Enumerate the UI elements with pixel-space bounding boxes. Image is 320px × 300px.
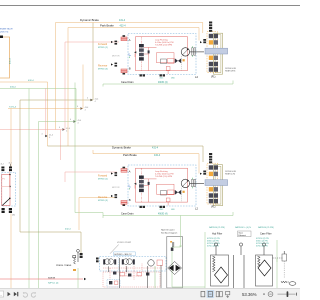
svg-text:431-4: 431-4: [9, 58, 11, 64]
motor case drain dashed A: [181, 56, 183, 70]
valve block outer tan box B: [214, 165, 223, 206]
toolbar zoom slider: [278, 293, 296, 295]
svg-text:(P1): (P1): [211, 77, 216, 79]
svg-text:432-4: 432-4: [65, 228, 71, 230]
svg-text:(2WD P4): (2WD P4): [0, 32, 9, 34]
svg-text:B: B: [129, 198, 131, 202]
reverse fitting B: [115, 194, 118, 196]
svg-text:A: A: [129, 38, 131, 42]
port bar A B: [121, 169, 127, 171]
traction lever red box: [2, 175, 10, 206]
vertical wire green x38: [38, 122, 40, 289]
vertical wire orange x68 park brake A: [67, 28, 69, 147]
svg-text:REAR (LH): REAR (LH): [225, 173, 235, 176]
svg-text:MTR/D (2): MTR/D (2): [98, 179, 108, 181]
cluster salmon feed: [9, 167, 11, 186]
filters right green drop: [276, 240, 278, 288]
wire olive horizontal: [20, 99, 93, 101]
svg-text:(M): (M): [12, 215, 15, 217]
case drain wire B: [103, 212, 233, 218]
hyd filter spring column: [213, 256, 216, 272]
case filter spring column: [258, 256, 261, 266]
filters left green drop: [204, 232, 206, 288]
right small valve: [282, 254, 287, 261]
bowtie valve A: [175, 58, 181, 63]
press trans spring component 2: [77, 252, 79, 262]
shuttle spool valve A: [141, 37, 143, 71]
mid element label box: [238, 231, 252, 237]
svg-text:6/7/0.5 (2) P/N: 6/7/0.5 (2) P/N: [207, 246, 219, 248]
toolbar last page icon: [14, 292, 17, 296]
olive elbow to hydro pump: [20, 232, 81, 253]
svg-text:Hyd Oil Cooler: Hyd Oil Cooler: [161, 229, 175, 232]
salmon line in cluster: [2, 186, 10, 188]
forward B wire salmon: [65, 172, 117, 182]
filters connecting verticals: [233, 255, 235, 288]
svg-text:Case Filter: Case Filter: [260, 233, 272, 236]
svg-text:MTR/D (2): MTR/D (2): [98, 47, 108, 49]
motor case drain dashed B: [181, 188, 183, 202]
svg-text:4: 4: [87, 98, 88, 100]
lever arm: [2, 199, 10, 206]
park brake wire A: [68, 28, 199, 41]
vertical wire orange x55 from dynamic brake A: [55, 23, 57, 130]
toolbar rotate cw icon: [31, 293, 35, 297]
svg-text:Case Drain: Case Drain: [121, 213, 134, 216]
svg-text:BRAKE VALVE: BRAKE VALVE: [0, 28, 13, 31]
svg-text:T471-4: T471-4: [9, 107, 17, 109]
svg-text:4.4 Bar (500 Da) PSI: 4.4 Bar (500 Da) PSI: [155, 42, 174, 44]
motor assembly A outer blue dashed box: [128, 34, 196, 75]
pump valve rect 4: [157, 260, 163, 266]
svg-text:53.36%: 53.36%: [242, 292, 257, 297]
port fitting A A: [123, 35, 126, 37]
hyd filter diamond: [215, 267, 228, 283]
wire olive down from dynamic brake: [92, 23, 94, 101]
dynamic brake wire A: [56, 23, 203, 34]
svg-text:Reverse: Reverse: [98, 196, 108, 199]
valve block outer tan box A: [214, 33, 223, 74]
orifice B: [183, 191, 185, 193]
svg-text:432-4: 432-4: [120, 24, 127, 27]
right spring horizontal: [281, 281, 287, 283]
port fitting A B: [123, 167, 126, 169]
svg-text:41-4: 41-4: [95, 98, 99, 100]
svg-text:Dynamic Brake: Dynamic Brake: [112, 146, 131, 150]
pump lower comps: [113, 272, 116, 275]
toolbar dropdown dot: [263, 293, 264, 294]
wire T471-4 orange from reverse port: [82, 65, 84, 109]
page top border: [0, 5, 300, 7]
gauge port marks B: [129, 185, 131, 188]
svg-text:41-4: 41-4: [78, 120, 82, 122]
connector arrow E2: [81, 107, 83, 109]
svg-text:NAT/S10.5 - (4) N: NAT/S10.5 - (4) N: [235, 226, 251, 229]
spool pilot red lines B: [144, 178, 157, 180]
cooler top thermal valve: [172, 242, 174, 247]
svg-text:See Aux Diagram: See Aux Diagram: [161, 231, 177, 234]
connector arrow E5: [45, 135, 47, 137]
svg-text:432-4: 432-4: [154, 154, 161, 157]
vertical wire olive x20: [19, 100, 21, 232]
port bars right A: [192, 48, 194, 55]
valve block orange dashed boundary A: [207, 32, 218, 73]
pump internal verticals: [108, 266, 110, 272]
valve block spool bar B: [205, 180, 228, 186]
svg-text:NZPG-1 (4): NZPG-1 (4): [48, 282, 59, 284]
bowtie valve B: [175, 190, 181, 195]
solenoid above block B: [209, 159, 212, 161]
orifice A: [183, 59, 185, 61]
svg-text:B: B: [129, 67, 131, 71]
svg-text:Park Brake: Park Brake: [100, 23, 114, 27]
motor assembly B red boundary box: [136, 168, 188, 202]
port bar B B: [121, 201, 127, 203]
svg-text:Forward: Forward: [98, 175, 108, 178]
pump sub box blue: [107, 280, 120, 288]
case filter diamond: [258, 260, 271, 276]
motor symbol circle A: [181, 48, 189, 56]
solenoid above block upper A: [209, 22, 212, 24]
toolbar next page icon: [8, 292, 11, 296]
cooler green tick: [179, 245, 182, 247]
wire T471-4 horizontal: [8, 108, 83, 110]
case filter body: [256, 255, 273, 286]
orange tick: [73, 269, 76, 271]
red divider line A: [148, 47, 150, 70]
small red valve box A: [166, 67, 170, 71]
svg-text:4: 4: [59, 127, 60, 129]
valve block cells A: [209, 34, 213, 38]
svg-text:Reverse: Reverse: [98, 65, 108, 68]
svg-text:431-4: 431-4: [119, 19, 126, 22]
svg-text:41-4: 41-4: [1, 164, 4, 166]
supply arrow: [84, 278, 86, 280]
svg-text:431-4: 431-4: [152, 147, 159, 150]
vertical wire salmon x60: [60, 130, 62, 161]
svg-text:MTR/D (3): MTR/D (3): [98, 200, 108, 202]
toolbar page number box: [0, 291, 4, 297]
junction comp below olive elbow: [80, 253, 83, 255]
cluster top fitting 2: [9, 167, 12, 169]
svg-text:4: 4: [49, 137, 50, 139]
hydro pump callout: [110, 245, 119, 254]
svg-text:SURGE: SURGE: [48, 278, 56, 280]
connector arrow E3: [74, 120, 76, 122]
cluster fitting 1: [2, 208, 5, 210]
motor assembly B outer blue dashed box: [128, 165, 196, 206]
svg-text:4: 4: [77, 106, 78, 108]
brake valve body (cut off at left edge): [0, 37, 10, 78]
svg-text:4: 4: [78, 123, 79, 125]
svg-text:REAR (RH): REAR (RH): [225, 70, 236, 73]
svg-text:L2: L2: [195, 75, 198, 79]
right oval: [289, 282, 296, 286]
pump unit divider: [118, 257, 120, 271]
relief valve component B: [161, 191, 167, 196]
motor shaft line B: [190, 182, 204, 184]
connector arrow E1: [91, 99, 93, 101]
drain fittings below box B: [140, 206, 142, 208]
svg-text:Hyd Filter: Hyd Filter: [212, 233, 222, 236]
forward fitting B: [115, 172, 118, 174]
svg-text:433-4: 433-4: [10, 87, 16, 89]
charge relief red box A: [157, 53, 175, 63]
svg-text:P1: P1: [2, 179, 4, 181]
shuttle spool valve B: [141, 168, 143, 202]
svg-text:4: 4: [42, 134, 43, 136]
svg-text:41-4: 41-4: [85, 107, 89, 109]
cooler inlet green: [172, 216, 205, 288]
svg-text:Dynamic Brake: Dynamic Brake: [80, 18, 99, 22]
port bars right B: [192, 179, 194, 186]
wire salmon horizontal: [0, 129, 65, 131]
relief valve component A: [161, 59, 167, 64]
left check valve A: [134, 51, 136, 53]
salmon supply line to pump: [0, 278, 83, 280]
svg-text:A: A: [129, 170, 131, 174]
wire 433-4 green: [0, 89, 76, 122]
right valve dashed drop: [283, 261, 285, 278]
pump inlet fitting: [96, 258, 99, 260]
junction fitting left of block B: [203, 171, 206, 173]
spool pilot red lines A: [144, 46, 157, 48]
svg-text:4: 4: [66, 131, 67, 133]
solenoid above block upper B: [209, 153, 212, 155]
svg-text:L2: L2: [195, 207, 198, 211]
svg-text:4: 4: [95, 101, 96, 103]
toolbar two page icon: [216, 291, 219, 296]
svg-text:HYDRO PUMP: HYDRO PUMP: [117, 242, 132, 244]
junction fitting left of block A: [203, 39, 206, 41]
svg-text:(P1): (P1): [211, 206, 216, 208]
valve block orange dashed boundary B: [207, 163, 218, 204]
vertical wire salmon x46: [45, 88, 47, 135]
toolbar scrolling icon: [226, 291, 230, 294]
svg-text:MOTOR: MOTOR: [112, 187, 120, 189]
oil cooler outline: [167, 237, 183, 289]
port bar B A: [121, 69, 127, 71]
svg-text:4.4 Bar (500 Da) PSI: 4.4 Bar (500 Da) PSI: [155, 174, 174, 176]
toolbar rotate ccw icon: [23, 293, 27, 297]
svg-text:4: 4: [70, 119, 71, 121]
svg-text:MOTOR: MOTOR: [112, 55, 120, 57]
breather 3: [262, 243, 265, 246]
lever pivot dots: [9, 174, 10, 175]
toolbar single page icon: [201, 291, 205, 296]
vertical wire green x29: [28, 89, 30, 289]
wire 432-4 orange: [0, 82, 48, 146]
svg-text:490/D (4): 490/D (4): [158, 214, 168, 216]
cluster top fitting 1: [1, 167, 4, 169]
valve block cells B: [209, 165, 213, 169]
case drain wire A: [103, 81, 233, 87]
svg-text:Park Brake: Park Brake: [123, 153, 137, 157]
hyd filter body: [211, 255, 229, 286]
port fitting B A: [123, 73, 126, 75]
svg-text:Element: Element: [239, 234, 247, 237]
svg-text:Loop Flushing: Loop Flushing: [155, 171, 168, 173]
svg-text:7.6L/NK (2.0) GPM: 7.6L/NK (2.0) GPM: [155, 45, 172, 47]
pump unit 3 circle: [148, 260, 154, 266]
traction lever blue dashed box: [2, 172, 16, 206]
right dashed takeoff: [273, 257, 284, 259]
dynamic brake wire B: [48, 146, 204, 162]
red divider line B: [148, 179, 150, 202]
svg-text:490/D (4): 490/D (4): [158, 82, 168, 84]
cluster fitting 2: [9, 208, 12, 210]
svg-text:432-4: 432-4: [28, 80, 34, 82]
toolbar background: [0, 289, 300, 300]
reverse fitting A: [115, 63, 118, 65]
small red valve box B: [166, 198, 170, 202]
valve block spool bar A: [205, 48, 228, 54]
toolbar fit width icon selected: [207, 290, 215, 298]
toolbar zoom out icon: [268, 292, 273, 297]
port bar A A: [121, 37, 127, 39]
breather 2: [239, 243, 242, 246]
forward fitting A: [115, 41, 118, 43]
svg-text:7.6L/NK (2.0) GPM: 7.6L/NK (2.0) GPM: [155, 176, 172, 178]
gauge port marks A: [129, 53, 131, 56]
wire green to lower bus: [39, 121, 77, 123]
svg-text:41-4: 41-4: [9, 163, 12, 165]
svg-text:4: 4: [85, 110, 86, 112]
pump unit 2: [122, 259, 124, 264]
svg-text:Forward: Forward: [98, 43, 108, 46]
vertical wire green x75: [75, 83, 103, 216]
green drop from pump area: [77, 268, 79, 288]
svg-text:NAT/S10 (25 PSI): NAT/S10 (25 PSI): [209, 226, 225, 229]
pump red dashed internals: [103, 267, 162, 269]
drain fittings below box A: [140, 74, 142, 76]
port fitting B B: [123, 204, 126, 206]
cooler bypass diamond: [168, 262, 182, 275]
connector arrow E4: [63, 128, 65, 130]
vertical wire orange x11 lower: [10, 214, 12, 289]
press trans spring component 1: [74, 258, 76, 264]
svg-text:NAT/S10 (25 PSI): NAT/S10 (25 PSI): [258, 226, 274, 229]
charge relief red box B: [157, 184, 175, 194]
hydro pump blue dashed box: [100, 257, 167, 272]
solenoid above block A: [209, 27, 212, 29]
svg-text:6/7/0.5 (2) P/N: 6/7/0.5 (2) P/N: [256, 246, 268, 248]
breather 1: [214, 243, 217, 246]
reverse B wire orange: [79, 198, 117, 231]
pump red dashed box lower: [103, 272, 160, 287]
left check valve B: [134, 183, 136, 185]
svg-text:41-4: 41-4: [49, 134, 53, 136]
right link lines: [288, 281, 290, 283]
motor symbol circle B: [181, 179, 189, 187]
svg-text:Loop Flushing: Loop Flushing: [155, 39, 168, 41]
park brake wire B: [93, 150, 199, 174]
svg-text:Case Drain: Case Drain: [121, 81, 134, 84]
svg-text:PRESS. TRANS: PRESS. TRANS: [56, 264, 72, 267]
svg-text:MTR/D (3): MTR/D (3): [98, 69, 108, 71]
pump unit 1: [103, 259, 105, 264]
motor assembly A red boundary box: [136, 37, 188, 71]
wire salmon from forward port: [65, 42, 119, 130]
vertical wire orange x11: [10, 109, 12, 168]
motor shaft line A: [190, 51, 204, 53]
